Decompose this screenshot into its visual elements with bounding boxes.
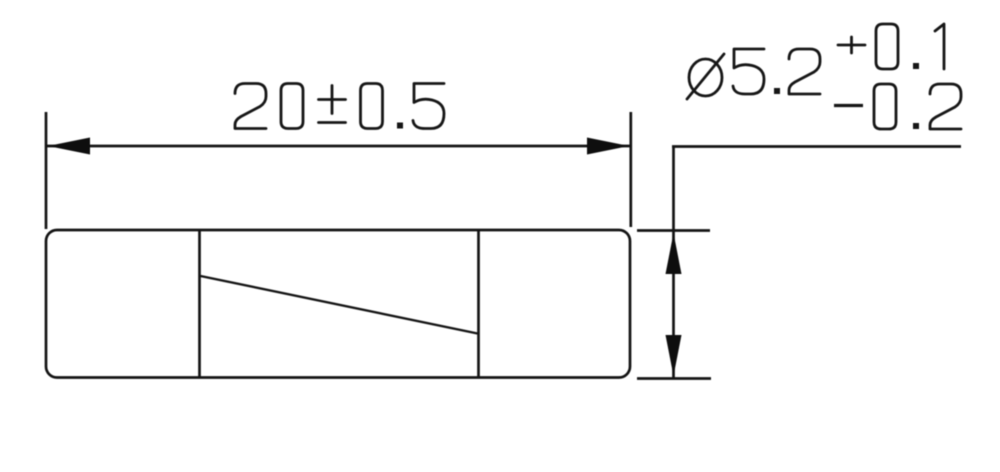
left dimension arrow [48,138,90,155]
upper tolerance text +0.1 [838,24,944,69]
dimension text 20±0.5 [235,84,444,129]
fuse body outline (caps + glass tube, rounded ends) [46,230,630,378]
diameter text ø5.2 [687,49,820,99]
down arrow of diameter dimension [666,335,682,376]
lower tolerance text -0.2 [834,84,961,129]
up arrow of diameter dimension [666,233,682,274]
left extension line [45,112,48,229]
leader shelf line for diameter callout [672,145,961,148]
horizontal dimension line 20±0.5 [47,145,630,148]
left cap right-edge divider [198,231,201,378]
fuse element wire (diagonal) [201,276,478,334]
vertical leader / diameter dimension line [672,147,675,380]
right dimension arrow [587,138,629,155]
right cap left-edge divider [477,231,480,378]
right extension line [629,112,632,227]
top tick at cap outer diameter [637,229,710,232]
bottom tick at cap outer diameter [637,377,711,380]
